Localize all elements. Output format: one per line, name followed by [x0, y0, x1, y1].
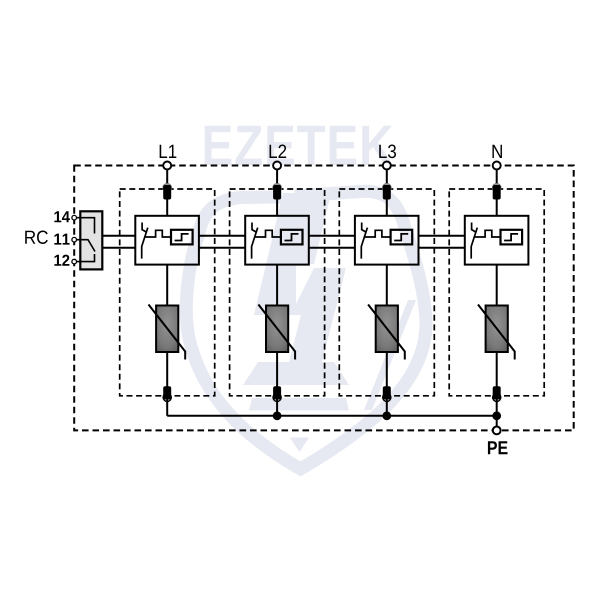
wire varistor RV3 to bottom contact	[386, 352, 388, 402]
disconnector moving blade, module 4	[471, 228, 477, 259]
terminal N	[493, 162, 501, 170]
RC terminal 14	[72, 215, 77, 220]
watermark lightning bolt upper stroke	[254, 193, 331, 315]
wire terminal N to disconnector	[496, 166, 498, 216]
terminal L3	[383, 162, 391, 170]
protection module 1 dashed outline	[120, 189, 215, 396]
disconnector moving blade, module 1	[142, 228, 148, 259]
RC terminal 11	[72, 237, 77, 242]
thermal disconnector / indicator box, module 3	[355, 216, 419, 265]
wire varistor RV1 to bottom contact	[166, 352, 168, 402]
disconnector moving blade, module 2	[252, 228, 258, 259]
wire disconnector to varistor RV3	[386, 265, 388, 306]
RC contact blade from 11	[76, 240, 95, 252]
status indicator window, module 1	[171, 230, 193, 245]
junction module 2 to PE bus	[273, 411, 282, 420]
watermark shield border	[186, 191, 426, 469]
indicator link wire, module 3	[364, 230, 391, 237]
terminal L1	[163, 162, 171, 170]
thermal disconnector / indicator box, module 2	[245, 216, 309, 265]
module 4 bottom plug contact	[493, 393, 501, 401]
wire disconnector to varistor RV4	[496, 265, 498, 306]
varistor RV1	[156, 306, 178, 353]
watermark EZETEK wordmark	[205, 126, 393, 165]
wire terminal L1 to disconnector	[166, 166, 168, 216]
watermark bolt notch	[296, 264, 316, 304]
protection module 2 dashed outline	[230, 189, 325, 396]
terminal PE	[493, 427, 501, 435]
module 3 top plug contact	[383, 184, 392, 193]
RC terminal 12	[72, 259, 77, 264]
indicator link wire, module 2	[254, 230, 281, 237]
module 2 top plug contact	[273, 184, 282, 193]
PE bus wire	[167, 415, 497, 417]
wire module 4 to PE bus	[496, 400, 498, 416]
disconnector fixed contact, module 1	[142, 223, 147, 233]
wire disconnector to varistor RV2	[276, 265, 278, 306]
watermark diagonal streak	[364, 300, 416, 410]
protection module 4 dashed outline	[449, 189, 544, 396]
watermark bolt tip triangle	[290, 438, 309, 453]
wire bus to PE terminal	[496, 416, 498, 431]
disconnector fixed contact, module 3	[362, 223, 367, 233]
varistor RV4	[486, 306, 508, 353]
thermal disconnector / indicator box, module 1	[135, 216, 199, 265]
RC link wires between modules	[102, 235, 135, 237]
wire varistor RV4 to bottom contact	[496, 352, 498, 402]
module 3 bottom plug contact	[383, 393, 391, 401]
indicator link wire, module 1	[144, 230, 171, 237]
module 2 bottom plug contact	[273, 393, 281, 401]
wire module 3 to PE bus	[386, 400, 388, 416]
watermark bolt foot bar	[249, 398, 349, 411]
wire varistor RV2 to bottom contact	[276, 352, 278, 402]
terminal L2	[273, 162, 281, 170]
protection module 3 dashed outline	[339, 189, 434, 396]
disconnector moving blade, module 3	[361, 228, 367, 259]
indicator link wire, module 4	[474, 230, 501, 237]
varistor RV3	[376, 306, 398, 353]
module 1 bottom plug contact	[163, 393, 171, 401]
wire disconnector to varistor RV1	[166, 265, 168, 306]
SPD enclosure dashed border	[74, 166, 574, 431]
thermal disconnector / indicator box, module 4	[465, 216, 529, 265]
watermark lightning bolt lower stroke	[289, 268, 346, 362]
disconnector fixed contact, module 4	[472, 223, 477, 233]
RC contact 14 lead	[76, 218, 95, 234]
wire terminal L2 to disconnector	[276, 166, 278, 216]
RC contact 12 lead	[76, 254, 95, 262]
status indicator window, module 3	[391, 230, 413, 245]
module 1 top plug contact	[163, 184, 172, 193]
disconnector fixed contact, module 2	[252, 223, 257, 233]
watermark bolt crossbar	[243, 362, 349, 385]
wire terminal L3 to disconnector	[386, 166, 388, 216]
status indicator window, module 2	[281, 230, 303, 245]
module 4 top plug contact	[492, 184, 501, 193]
RC label	[25, 231, 48, 244]
wire module 1 to PE bus	[166, 400, 168, 416]
remote contact RC block	[80, 211, 102, 269]
junction module 3 to PE bus	[382, 411, 391, 420]
junction module 4 to PE bus	[492, 411, 501, 420]
wire module 2 to PE bus	[276, 400, 278, 416]
status indicator window, module 4	[501, 230, 523, 245]
varistor RV2	[266, 306, 288, 353]
